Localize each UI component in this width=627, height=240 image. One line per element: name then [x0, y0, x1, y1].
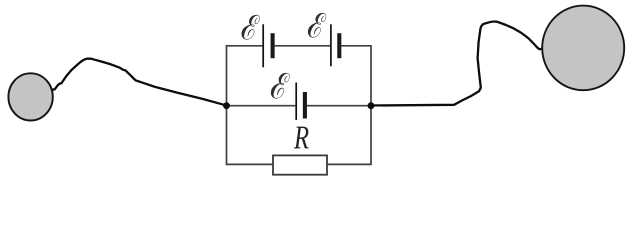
- wire middle-left segment: [227, 105, 296, 107]
- battery E3 negative plate: [303, 92, 307, 119]
- label R (resistance): [294, 127, 309, 149]
- left sphere electrode: [8, 73, 52, 120]
- battery E1 positive plate: [262, 24, 264, 67]
- resistor R box: [273, 155, 327, 174]
- battery E3 positive plate: [295, 83, 297, 121]
- wire top-middle segment: [275, 45, 330, 47]
- battery E2 negative plate: [337, 33, 341, 58]
- battery E2 positive plate: [330, 24, 332, 66]
- label E2 (emf): [308, 13, 326, 38]
- wire top-right segment: [341, 46, 371, 106]
- label E1 (emf): [242, 15, 260, 40]
- wire top-left segment: [227, 46, 263, 106]
- wire right lead (hand-drawn): [371, 21, 544, 105]
- wire middle-right segment: [307, 105, 371, 107]
- wire bottom-left segment: [227, 106, 274, 165]
- right sphere electrode: [542, 6, 624, 91]
- wire bottom-right segment: [327, 106, 371, 165]
- wire left lead (hand-drawn): [50, 59, 227, 106]
- node right junction: [368, 102, 375, 109]
- battery E1 negative plate: [271, 33, 275, 58]
- node left junction: [223, 102, 230, 109]
- label E3 (emf): [271, 73, 290, 99]
